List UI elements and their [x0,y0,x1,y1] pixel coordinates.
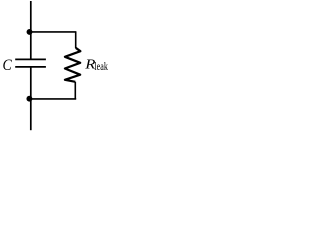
node (top junction) [27,29,33,35]
label Rleak [84,57,108,73]
wire (right branch, bottom vertical segment) [74,82,76,99]
wire (top horizontal, junction to resistor branch) [30,31,77,33]
wire (right branch, top vertical segment) [75,32,77,48]
wire (left branch, bottom vertical segment) [30,67,32,130]
node (bottom junction) [26,96,32,102]
wire (bottom horizontal, resistor branch to junction) [29,98,76,100]
resistor Rleak [65,48,81,82]
svg-text:leak: leak [94,61,108,73]
svg-text:C: C [3,57,13,74]
capacitor C [15,59,46,67]
wire (left branch, top vertical segment) [30,1,32,59]
